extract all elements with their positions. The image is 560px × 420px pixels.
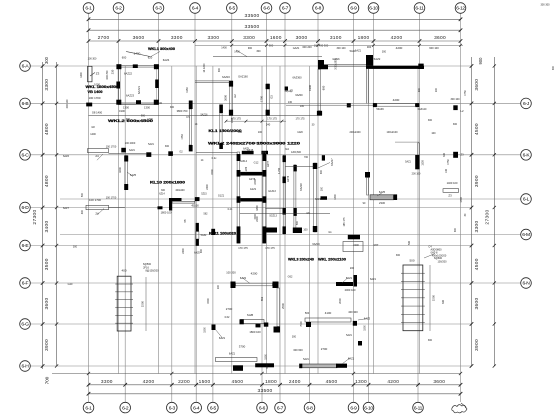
svg-text:6AZ6: 6AZ6	[63, 155, 70, 158]
svg-text:GAZ1: GAZ1	[293, 47, 300, 50]
wall corner column GAZ3	[116, 100, 121, 105]
column row C mid2	[168, 151, 173, 156]
svg-text:WKL3 200x240: WKL3 200x240	[288, 258, 314, 262]
svg-text:200x2400: 200x2400	[350, 131, 362, 134]
svg-text:6-9: 6-9	[350, 405, 357, 411]
svg-text:3900: 3900	[474, 175, 480, 187]
wall stub west of corridor	[158, 206, 163, 209]
svg-text:33500: 33500	[244, 13, 259, 19]
core V3 seg2	[283, 177, 286, 184]
beam line b row A	[328, 65, 366, 67]
column row C right	[365, 172, 370, 178]
svg-text:1500: 1500	[204, 327, 207, 333]
pier X top seg	[189, 101, 193, 110]
svg-text:6AZ1: 6AZ1	[346, 276, 353, 280]
svg-text:100 200: 100 200	[226, 270, 236, 274]
beam B24 lower	[86, 205, 109, 209]
svg-text:3600: 3600	[44, 298, 50, 310]
svg-text:G1Z13: G1Z13	[268, 190, 276, 193]
pier on axis 6-11 below row J: outline part	[418, 143, 420, 155]
wall pier right edge	[155, 80, 159, 89]
beam to pier GBZ1	[195, 80, 230, 82]
svg-text:0.2x: 0.2x	[212, 157, 217, 160]
axis bubble 6-D	[20, 202, 31, 213]
svg-text:300 600: 300 600	[293, 348, 303, 352]
svg-text:3000: 3000	[296, 35, 308, 41]
pier cap GBZ2 top	[266, 84, 270, 89]
bottom segment dimension texts	[101, 379, 445, 385]
column at west end W2	[366, 55, 373, 66]
svg-text:1500: 1500	[207, 298, 210, 304]
column row C mid	[146, 152, 151, 157]
svg-text:27300: 27300	[32, 209, 38, 224]
bottom boundary line	[52, 373, 461, 375]
svg-text:2400: 2400	[353, 244, 359, 247]
pier cap GBZ1 top	[229, 81, 233, 87]
wall corner column GAZ4	[154, 100, 159, 105]
svg-text:27300: 27300	[485, 209, 491, 224]
pier Y bottom seg	[219, 143, 223, 149]
core V1 seg2	[237, 170, 241, 177]
svg-text:1300: 1300	[334, 194, 337, 200]
svg-text:6AZ2: 6AZ2	[240, 276, 247, 280]
svg-text:4200: 4200	[251, 272, 258, 276]
svg-text:2400: 2400	[289, 379, 301, 385]
upper local dim line	[195, 44, 463, 46]
svg-text:5AZ1: 5AZ1	[405, 161, 411, 164]
beam line a row A	[328, 64, 366, 66]
axis bubble 6-F	[20, 278, 31, 289]
svg-text:300: 300	[238, 131, 243, 134]
wall pier bottom edge	[136, 100, 141, 104]
svg-text:1150: 1150	[185, 87, 189, 93]
column Z3 row C east	[453, 152, 458, 158]
svg-text:300 300: 300 300	[540, 4, 550, 7]
svg-text:300: 300	[256, 50, 261, 53]
svg-text:6-1: 6-1	[85, 6, 92, 12]
shear wall W2 row A	[366, 66, 424, 69]
pier X bottom seg	[189, 145, 193, 151]
svg-text:VB 1400: VB 1400	[88, 90, 103, 94]
svg-text:500 700: 500 700	[276, 142, 285, 145]
wall stub on row B axis 6-1	[86, 103, 92, 107]
svg-text:0.229: 0.229	[245, 166, 248, 173]
svg-text:300: 300	[453, 123, 458, 126]
beam cap west	[373, 103, 377, 107]
axis bubble 6-7	[275, 402, 286, 413]
svg-text:3600: 3600	[433, 379, 445, 385]
svg-text:300 200: 300 200	[302, 45, 312, 49]
svg-text:500: 500	[305, 311, 310, 315]
svg-text:3900: 3900	[474, 339, 480, 351]
svg-text:900: 900	[141, 115, 146, 118]
core wall V5	[314, 163, 317, 232]
axis bubble 6-7	[280, 3, 291, 14]
core wall V4	[294, 165, 296, 232]
axis bubble 6-2	[120, 402, 131, 413]
svg-text:165 175: 165 175	[343, 217, 346, 227]
svg-text:SGZ13: SGZ13	[269, 215, 277, 218]
svg-text:4500: 4500	[474, 258, 480, 270]
svg-text:6-7: 6-7	[277, 405, 284, 411]
svg-text:6-A: 6-A	[22, 64, 30, 70]
svg-text:5AZ2: 5AZ2	[374, 57, 381, 61]
core bottom wall east	[293, 228, 302, 234]
svg-text:L2: L2	[460, 109, 464, 113]
svg-text:1500: 1500	[265, 354, 268, 360]
axis bubble 6-B	[20, 98, 31, 109]
svg-text:2700: 2700	[321, 347, 328, 351]
svg-text:33500: 33500	[257, 388, 272, 394]
beam link row C	[109, 152, 147, 154]
svg-text:2400: 2400	[182, 248, 185, 254]
svg-text:900: 900	[248, 47, 253, 50]
svg-text:6-6: 6-6	[259, 405, 266, 411]
axis bubble 6-L	[521, 194, 532, 205]
svg-text:3900: 3900	[44, 339, 50, 351]
beam cap east row G mid	[264, 323, 269, 327]
ticks on bottom boundary line	[87, 372, 462, 375]
svg-text:300: 300	[428, 339, 433, 342]
svg-text:6AZ5: 6AZ5	[379, 190, 386, 194]
beam B24 upper	[88, 149, 109, 153]
svg-text:100: 100	[217, 284, 220, 289]
axis bubble 6-1	[83, 402, 94, 413]
svg-text:2-700: 2-700	[278, 167, 281, 174]
svg-text:1300: 1300	[144, 106, 150, 110]
svg-text:24: 24	[95, 154, 99, 158]
svg-text:240: 240	[266, 123, 271, 127]
svg-text:6-5: 6-5	[229, 6, 236, 12]
leader lines	[97, 50, 435, 364]
svg-text:6-12: 6-12	[456, 6, 465, 12]
svg-text:2400: 2400	[206, 184, 209, 190]
svg-text:1750: 1750	[447, 159, 450, 165]
hatched beam bottom row H east	[302, 364, 337, 368]
vertical beam below 6AZ2	[277, 288, 280, 327]
wall pier Y mid-span	[220, 113, 222, 143]
beam cap west row G	[240, 319, 244, 324]
bottom dimension lines	[89, 384, 461, 386]
axis bubble 6-2	[113, 3, 124, 14]
beam cap bottom vertical	[274, 327, 281, 333]
svg-text:6AZ120: 6AZ120	[418, 108, 427, 111]
core V1 seg3	[237, 196, 241, 203]
svg-text:3300: 3300	[207, 35, 219, 41]
svg-text:300: 300	[443, 152, 446, 157]
axis bubble 6-1	[83, 3, 94, 14]
axis bubble 6-C	[20, 150, 31, 161]
svg-text:6AZ1: 6AZ1	[315, 198, 322, 201]
core V2 seg3	[262, 196, 266, 203]
svg-text:S12B: S12B	[247, 313, 254, 317]
core wall V2	[263, 152, 266, 243]
svg-text:100: 100	[445, 168, 448, 173]
svg-text:Z3: Z3	[96, 72, 100, 76]
beam row G mid	[241, 320, 265, 324]
svg-text:4500: 4500	[232, 379, 244, 385]
core V1 seg4	[237, 226, 241, 243]
pier 5AZ5 cap bottom	[124, 184, 128, 190]
boundary element pier P2 with ties	[403, 265, 423, 331]
svg-text:6AZ7: 6AZ7	[63, 207, 70, 210]
svg-text:400: 400	[81, 209, 84, 214]
svg-text:6AZ360: 6AZ360	[292, 76, 302, 80]
wall stub bottom east	[336, 364, 347, 368]
wall line b	[367, 69, 369, 103]
svg-text:9B: 9B	[184, 219, 187, 222]
svg-text:6-4: 6-4	[193, 405, 200, 411]
svg-text:170 175: 170 175	[267, 117, 277, 121]
top dimension lines	[89, 19, 461, 41]
shear wall W3 opening	[196, 232, 199, 240]
svg-text:G1Z1: G1Z1	[250, 188, 257, 191]
ticks on secondary left dim line	[55, 64, 58, 367]
svg-text:6-H: 6-H	[22, 364, 30, 370]
svg-text:6-10: 6-10	[369, 6, 378, 12]
wall pier 5AZ5 on axis 6-2b	[125, 156, 127, 190]
svg-text:6AZ1: 6AZ1	[219, 336, 226, 340]
core V4 seg1	[293, 165, 296, 172]
axis bubble 6-8	[304, 402, 315, 413]
svg-text:7000: 7000	[300, 321, 303, 327]
svg-text:6-4: 6-4	[192, 6, 199, 12]
svg-text:1500: 1500	[432, 294, 436, 301]
corridor beam	[172, 201, 195, 203]
svg-text:2700: 2700	[98, 35, 110, 41]
beam inside core	[285, 166, 313, 168]
svg-text:6AZ00: 6AZ00	[295, 94, 303, 97]
svg-text:6-8: 6-8	[306, 405, 313, 411]
svg-text:6AZ18: 6AZ18	[300, 183, 303, 191]
svg-text:300: 300	[165, 145, 170, 148]
core wall V1	[237, 152, 240, 243]
svg-text:6-11: 6-11	[415, 6, 424, 12]
beam cap row G east	[306, 322, 311, 327]
wall line a	[365, 69, 367, 103]
svg-text:6AZ19: 6AZ19	[312, 243, 320, 246]
svg-text:300 100: 300 100	[336, 47, 346, 50]
svg-text:400 300: 400 300	[348, 310, 358, 314]
svg-text:1500: 1500	[421, 160, 424, 166]
svg-text:1700: 1700	[260, 96, 264, 102]
svg-text:G3: G3	[270, 95, 274, 99]
svg-text:6Z14: 6Z14	[159, 193, 165, 196]
svg-text:5AZ16: 5AZ16	[200, 114, 208, 117]
svg-text:2000 100: 2000 100	[345, 288, 356, 292]
axis bubble 6-10	[368, 3, 379, 14]
core wall V3	[283, 155, 285, 234]
core top wall segment west	[242, 151, 254, 154]
beam cap on row J mid	[347, 103, 351, 107]
svg-text:200 100: 200 100	[412, 173, 421, 176]
column east of core	[322, 155, 325, 160]
svg-text:1400: 1400	[221, 47, 227, 50]
core V5 seg2	[313, 226, 317, 232]
svg-text:3800 700: 3800 700	[177, 109, 188, 113]
svg-text:6-11: 6-11	[414, 405, 423, 411]
svg-text:G2: G2	[233, 94, 237, 98]
svg-text:0HT: 0HT	[374, 244, 379, 247]
svg-text:5Z15: 5Z15	[201, 193, 207, 196]
svg-text:900 100: 900 100	[429, 46, 439, 50]
left dimension lines	[42, 62, 44, 369]
svg-text:3400: 3400	[44, 221, 50, 233]
beam line under piers	[89, 115, 323, 117]
svg-text:KL10 200x1800: KL10 200x1800	[150, 180, 185, 184]
svg-text:500: 500	[296, 220, 299, 225]
wall pier top edge	[133, 64, 138, 68]
small cross mark near scribble	[461, 403, 466, 407]
wall pier GBZ1 on axis 6-5	[230, 81, 233, 115]
svg-text:300: 300	[200, 248, 203, 253]
core V5 seg1	[313, 163, 317, 169]
svg-text:3x2: 3x2	[285, 148, 290, 151]
core V2 seg1	[262, 154, 266, 161]
wall corner row F west	[348, 235, 360, 240]
svg-text:1800: 1800	[256, 205, 259, 211]
core V3 seg1	[283, 156, 286, 163]
svg-text:100: 100	[303, 229, 308, 232]
axis bubble 6-M	[521, 229, 532, 240]
svg-text:4200: 4200	[396, 46, 403, 50]
svg-text:300: 300	[552, 65, 555, 70]
svg-text:1300: 1300	[266, 363, 269, 369]
dim line right of pier P1	[145, 277, 147, 331]
svg-text:G/Z14: G/Z14	[240, 160, 248, 163]
svg-text:100: 100	[300, 105, 305, 108]
wall pier X mid-span	[189, 109, 191, 145]
svg-text:0.21: 0.21	[228, 208, 233, 211]
svg-text:3300: 3300	[474, 221, 480, 233]
svg-text:GAZ160: GAZ160	[238, 75, 248, 79]
wall pier on axis 6-8	[318, 69, 320, 111]
svg-text:300: 300	[320, 169, 323, 174]
svg-text:4500: 4500	[326, 379, 338, 385]
svg-text:6-5: 6-5	[210, 405, 217, 411]
svg-text:3600: 3600	[474, 79, 480, 91]
svg-text:KL1 1500/2000: KL1 1500/2000	[209, 129, 242, 133]
svg-text:100x2100: 100x2100	[387, 131, 399, 134]
svg-text:1200,600: 1200,600	[291, 151, 302, 154]
svg-text:1900: 1900	[119, 109, 125, 113]
svg-text:3300: 3300	[243, 35, 255, 41]
wall bar east of core	[321, 196, 328, 200]
corridor wall seg a	[169, 198, 182, 201]
svg-text:900 100: 900 100	[234, 142, 243, 145]
svg-text:1800: 1800	[265, 379, 277, 385]
core top wall segment east	[261, 151, 268, 154]
axis bubble 6-6	[257, 402, 268, 413]
top segment dimension texts	[98, 35, 446, 41]
beam row G east	[305, 318, 351, 322]
svg-text:6AZ1: 6AZ1	[129, 149, 135, 152]
svg-text:100 1700: 100 1700	[88, 96, 100, 100]
column small row GH	[358, 341, 362, 346]
svg-text:6-M: 6-M	[522, 232, 530, 238]
svg-text:300: 300	[367, 45, 372, 49]
svg-text:300: 300	[396, 254, 401, 257]
svg-text:100 2000: 100 2000	[125, 142, 136, 145]
svg-text:56AZ9: 56AZ9	[376, 108, 384, 111]
svg-text:3500: 3500	[44, 258, 50, 270]
beam 6AZ2 row F	[236, 283, 273, 286]
svg-text:600: 600	[122, 56, 127, 60]
svg-text:6-C: 6-C	[22, 153, 30, 159]
svg-text:300 100: 300 100	[450, 98, 460, 101]
svg-text:6-K: 6-K	[523, 153, 531, 159]
corner column cluster	[195, 197, 200, 201]
svg-text:6-E: 6-E	[22, 243, 30, 249]
svg-text:G2T8: G2T8	[249, 178, 256, 181]
svg-text:3300: 3300	[44, 79, 50, 91]
dim line right wing	[395, 141, 419, 143]
svg-text:6-F: 6-F	[22, 281, 29, 287]
dim line under piers	[226, 120, 286, 122]
beam line mid core	[240, 213, 331, 215]
svg-text:100: 100	[158, 102, 163, 105]
svg-text:4200: 4200	[391, 35, 403, 41]
svg-text:1600: 1600	[270, 35, 282, 41]
boundary element pier P1 with ties	[117, 276, 131, 331]
svg-text:3600: 3600	[474, 298, 480, 310]
svg-text:300 100: 300 100	[66, 99, 69, 108]
svg-text:3300: 3300	[101, 379, 113, 385]
svg-text:1350: 1350	[231, 117, 234, 123]
svg-text:100/200: 100/200	[437, 260, 447, 263]
svg-text:1220: 1220	[297, 131, 303, 134]
svg-text:30(x2): 30(x2)	[284, 90, 291, 93]
svg-text:600: 600	[322, 85, 326, 90]
svg-text:2200: 2200	[256, 216, 259, 222]
svg-text:700: 700	[45, 376, 50, 384]
svg-text:6-6: 6-6	[263, 6, 270, 12]
svg-text:450,30: 450,30	[191, 205, 199, 208]
ticks on secondary right dim line	[493, 64, 496, 367]
wall pier GBZ2 on axis 6-6	[266, 84, 269, 115]
svg-text:130: 130	[288, 101, 293, 104]
wall corner column GAZ1	[116, 64, 121, 69]
axis grid: horizontal centre lines	[31, 66, 521, 366]
svg-text:6AZ1: 6AZ1	[229, 352, 236, 356]
right dimension tick marks	[470, 64, 474, 368]
wall stub row G axis 6-5	[212, 325, 216, 331]
beam bottom row H west	[216, 358, 258, 362]
column left of pier 5AZ5	[121, 148, 126, 153]
axis bubble 6-5	[208, 402, 219, 413]
svg-text:6AZ1: 6AZ1	[348, 356, 355, 360]
svg-text:1750: 1750	[181, 134, 184, 140]
svg-text:100 1700: 100 1700	[106, 146, 117, 149]
svg-text:3000: 3000	[224, 95, 228, 101]
svg-text:3000x2800: 3000x2800	[336, 58, 338, 70]
column L2	[453, 105, 457, 110]
svg-text:500: 500	[409, 259, 414, 263]
svg-text:5AZ2: 5AZ2	[201, 234, 207, 237]
svg-text:5AZ1: 5AZ1	[346, 334, 352, 337]
axis bubble 6-11	[413, 402, 424, 413]
svg-text:6-2: 6-2	[115, 6, 122, 12]
svg-text:6-B: 6-B	[22, 101, 29, 107]
svg-text:Z3: Z3	[448, 194, 452, 198]
beam to pier GBZ1 lower line	[195, 81, 230, 83]
svg-text:200: 200	[350, 267, 355, 270]
axis bubble 6-N	[521, 278, 532, 289]
core bottom wall west	[264, 228, 277, 233]
wall corner column GAZ2	[154, 64, 159, 69]
svg-text:0.62: 0.62	[225, 316, 230, 319]
svg-text:100: 100	[258, 131, 263, 134]
